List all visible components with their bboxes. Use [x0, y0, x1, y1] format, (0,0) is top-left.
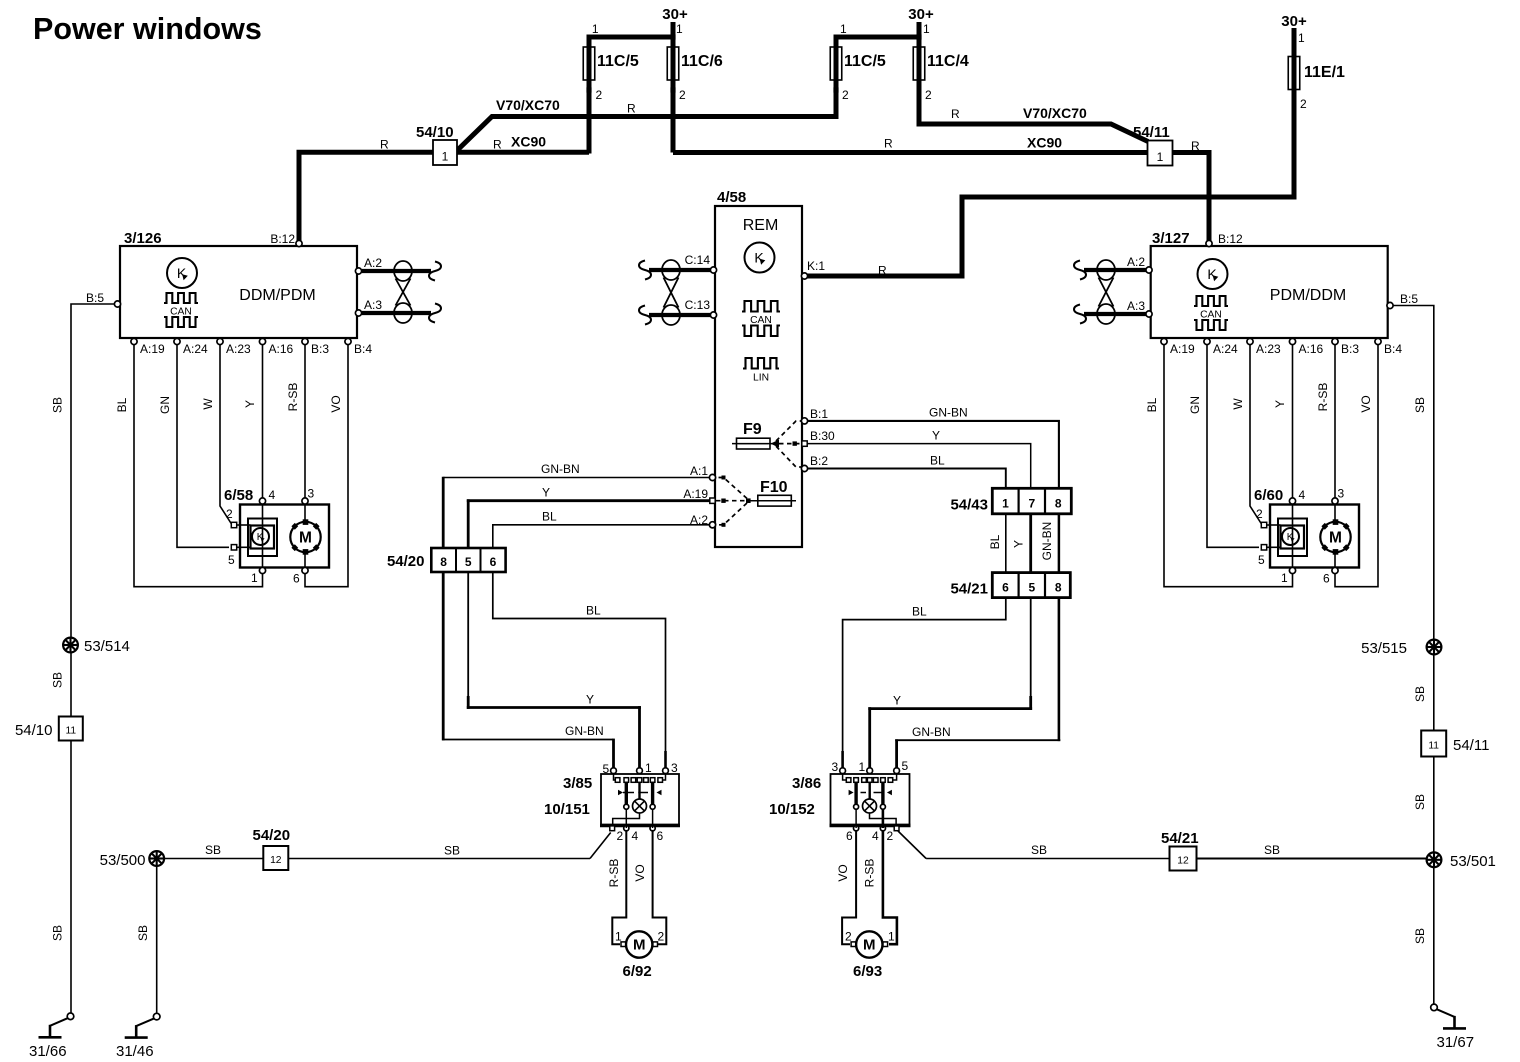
svg-text:R: R	[951, 107, 960, 121]
svg-text:Y: Y	[932, 429, 940, 443]
svg-text:54/10: 54/10	[416, 124, 454, 141]
svg-text:31/66: 31/66	[29, 1043, 67, 1060]
K symbol 6/58	[252, 528, 269, 545]
svg-text:4: 4	[1299, 488, 1306, 502]
lamp 3/85	[633, 799, 647, 813]
svg-text:GN-BN: GN-BN	[1040, 522, 1054, 561]
svg-text:54/11: 54/11	[1133, 124, 1170, 141]
svg-text:53/501: 53/501	[1450, 853, 1496, 870]
svg-text:3: 3	[1338, 487, 1345, 501]
svg-text:31/46: 31/46	[116, 1043, 154, 1060]
pin B:4 3/126	[345, 338, 351, 344]
svg-text:B:5: B:5	[86, 291, 104, 305]
ground 31/46	[153, 1013, 160, 1020]
fuse 11C/6	[667, 47, 679, 80]
svg-text:REM: REM	[743, 217, 779, 234]
svg-text:2: 2	[845, 930, 852, 944]
wire SB 54/11 to 53/501	[1433, 757, 1435, 853]
junction at 30+ middle stub	[916, 34, 921, 39]
svg-text:6: 6	[1002, 581, 1009, 595]
wire pin3 to motor 6/60	[1334, 504, 1336, 522]
svg-text:30+: 30+	[908, 6, 934, 23]
pin 5 3/86	[894, 768, 900, 774]
svg-text:8: 8	[1055, 497, 1062, 511]
wire motor to pin6 6/60	[1334, 552, 1336, 567]
svg-text:6: 6	[293, 572, 300, 586]
svg-text:Y: Y	[1012, 540, 1026, 548]
svg-text:BL: BL	[1145, 397, 1159, 412]
svg-text:BL: BL	[930, 454, 945, 468]
svg-text:3: 3	[308, 487, 315, 501]
K symbol 4/58	[745, 243, 775, 273]
internal left contact bar 3/85	[625, 783, 628, 805]
svg-text:4: 4	[269, 488, 276, 502]
wire break C:14	[639, 261, 651, 280]
dashed wire F9 to B:30	[779, 443, 803, 445]
svg-text:6/58: 6/58	[224, 487, 253, 504]
svg-text:R-SB: R-SB	[607, 859, 621, 888]
svg-text:10/152: 10/152	[769, 801, 815, 818]
svg-text:A:24: A:24	[183, 342, 208, 356]
wire W A:23 3/127 to 6/60 pin 2	[1250, 345, 1262, 524]
svg-text:1: 1	[645, 761, 652, 775]
svg-text:B:4: B:4	[1384, 342, 1402, 356]
wire BL 54/21 to 3/86 pin 3	[843, 598, 1006, 751]
svg-text:C:14: C:14	[685, 253, 711, 267]
svg-text:3/85: 3/85	[563, 775, 592, 792]
relay box 6/58	[248, 519, 277, 557]
pin A:23 3/127	[1247, 338, 1253, 344]
svg-text:B:2: B:2	[810, 454, 828, 468]
svg-text:BL: BL	[912, 605, 927, 619]
pin 1 6/58	[259, 567, 265, 573]
svg-text:Y: Y	[586, 693, 594, 707]
svg-text:2: 2	[658, 930, 665, 944]
svg-text:4: 4	[632, 829, 639, 843]
svg-text:B:12: B:12	[270, 232, 295, 246]
svg-text:2: 2	[887, 829, 894, 843]
svg-text:Y: Y	[542, 486, 550, 500]
motor 6/92	[626, 931, 652, 957]
wire SB 54/21 to 53/501	[1197, 858, 1427, 860]
wire V70/XC70 feed 11C/5 right to 54/10	[456, 117, 836, 152]
svg-text:1: 1	[442, 150, 449, 164]
wire Y A:16 3/126 to 6/58 pin 4	[262, 345, 264, 498]
pin 2 3/85	[610, 826, 615, 831]
fuse 11C/5 right	[830, 47, 842, 80]
wire GN-BN 54/20 to 3/85 pin 5	[442, 572, 445, 740]
svg-text:2: 2	[925, 88, 932, 102]
svg-text:54/21: 54/21	[1161, 830, 1199, 847]
svg-text:M: M	[633, 937, 646, 954]
pin 1 3/85	[637, 768, 643, 774]
svg-text:3/127: 3/127	[1152, 230, 1190, 247]
svg-text:VO: VO	[633, 864, 647, 881]
wire pin4 to pin1 through 6/60	[1292, 504, 1294, 567]
svg-text:53/515: 53/515	[1361, 640, 1407, 657]
wire R from 11E/1 to REM K:1	[806, 95, 1294, 276]
svg-text:BL: BL	[988, 534, 1002, 549]
svg-text:SB: SB	[1413, 686, 1427, 702]
pin B:4 3/127	[1375, 338, 1381, 344]
wire XC90 feed 11C/5 left to 54/10	[457, 150, 589, 155]
svg-text:F9: F9	[743, 421, 762, 438]
wire pin1 to lamp 3/86	[869, 783, 871, 800]
svg-text:11C/4: 11C/4	[927, 53, 969, 70]
svg-text:DDM/PDM: DDM/PDM	[239, 287, 315, 304]
wire BL REM B:2 to 54/43	[808, 469, 1006, 490]
wire stub 30+ to fuse 11C/5 top	[589, 37, 673, 48]
wire SB from B:5 3/127	[1393, 306, 1434, 641]
svg-text:BL: BL	[115, 397, 129, 412]
svg-text:SB: SB	[444, 844, 460, 858]
pin A:16 3/126	[259, 338, 265, 344]
svg-text:4: 4	[872, 829, 879, 843]
wire SB 54/20 to 3/85 pin 2	[288, 858, 590, 860]
K symbol 3/126	[167, 258, 197, 288]
svg-text:3/86: 3/86	[792, 775, 821, 792]
splice 53/501	[1427, 852, 1442, 867]
K symbol 6/60	[1282, 528, 1299, 545]
svg-text:31/67: 31/67	[1437, 1034, 1475, 1051]
wire break A:2 3/127	[1074, 261, 1086, 280]
pin 6 6/58	[302, 567, 308, 573]
pin 4 6/58	[259, 498, 265, 504]
wire XC90 feed 11C/6 to 54/11	[673, 150, 1148, 155]
svg-text:3: 3	[671, 761, 678, 775]
wire pin1 to lamp 3/85	[638, 783, 640, 800]
wire break A:3 3/127	[1074, 305, 1086, 324]
svg-text:6: 6	[490, 555, 497, 569]
svg-text:11C/6: 11C/6	[681, 53, 723, 70]
svg-text:VO: VO	[329, 395, 343, 412]
pin A:19 3/127	[1161, 338, 1167, 344]
wire R from B:12 DDM to 54/10	[299, 152, 433, 242]
wire 30+ middle vertical to fuse 11C/4	[917, 22, 922, 48]
pin 2 dot fuse 11C/6	[670, 87, 675, 92]
wire GN A:24 3/127 to 6/60 pin 5	[1207, 345, 1259, 547]
svg-text:5: 5	[603, 762, 610, 776]
svg-text:A:19: A:19	[683, 487, 708, 501]
splice 53/514	[70, 638, 72, 717]
dashed wire F10 to A:19	[716, 500, 746, 502]
wire lamp to pin 2 3/85	[613, 813, 640, 826]
wire Y REM A:19 to 54/20	[467, 499, 710, 502]
wire W A:23 3/126 to 6/58 pin 2	[220, 345, 232, 524]
svg-text:2: 2	[1300, 97, 1307, 111]
svg-text:R-SB: R-SB	[286, 383, 300, 412]
wire pin4 to pin1 through 6/58	[262, 504, 264, 567]
wire lamp to pin 2 3/86	[870, 813, 897, 826]
wire CAN C:14 4/58	[649, 268, 711, 272]
junction at 30+ left stub	[670, 34, 675, 39]
wire Y 54/21 to 3/86 pin 1	[1030, 598, 1032, 696]
wire 30+ left vertical to fuse 11C/6	[671, 22, 676, 48]
svg-text:F10: F10	[760, 479, 788, 496]
pin B:3 3/126	[302, 338, 308, 344]
internal right contact bar 3/86	[881, 783, 884, 805]
motor 6/93	[856, 931, 882, 957]
svg-text:B:1: B:1	[810, 407, 828, 421]
svg-text:R-SB: R-SB	[1316, 383, 1330, 412]
svg-text:R: R	[884, 137, 893, 151]
wire CAN A:2 3/127	[1084, 268, 1146, 272]
svg-text:CAN: CAN	[170, 307, 192, 318]
svg-text:B:3: B:3	[1341, 342, 1359, 356]
pin 2 motor 6/92	[653, 942, 658, 947]
splice 53/500	[149, 851, 164, 866]
svg-text:1: 1	[615, 930, 622, 944]
wire motor to pin6 6/58	[304, 552, 306, 567]
svg-text:5: 5	[228, 553, 235, 567]
svg-text:B:4: B:4	[354, 342, 372, 356]
svg-text:SB: SB	[1413, 928, 1427, 944]
svg-text:VO: VO	[1359, 395, 1373, 412]
svg-text:1: 1	[1281, 571, 1288, 585]
pin 6 3/85	[650, 826, 655, 831]
svg-text:5: 5	[465, 555, 472, 569]
svg-text:1: 1	[676, 22, 683, 36]
internal right contact bar 3/85	[651, 783, 654, 805]
wire stub 30+ to fuse 11C/5 right top	[836, 37, 919, 48]
pin 1 motor 6/93	[883, 942, 888, 947]
dashed wire F10 to A:2	[716, 503, 747, 525]
wire R-SB 3/86 to motor 6/93	[882, 809, 885, 828]
svg-text:11: 11	[65, 726, 76, 737]
svg-text:SB: SB	[136, 925, 150, 941]
twisted pair symbol 3/127	[1097, 260, 1115, 280]
connector 54/11 pin 11	[1421, 731, 1446, 757]
svg-text:R: R	[493, 138, 502, 152]
wire SB 3/86 to 54/21	[898, 831, 926, 859]
wire pin3 to motor 6/58	[304, 504, 306, 522]
wire Y 54/20 to 3/85 pin 1	[467, 572, 469, 696]
pin 2 motor 6/93	[851, 942, 856, 947]
pin 3 6/58	[302, 498, 308, 504]
fuse 11C/4	[913, 47, 925, 80]
fuse 11E/1	[1288, 57, 1300, 90]
wire Y A:16 3/127 to 6/60 pin 4	[1292, 345, 1294, 498]
svg-text:B:12: B:12	[1218, 232, 1243, 246]
wire CAN C:13 4/58	[649, 313, 711, 317]
svg-text:2: 2	[226, 507, 233, 521]
svg-text:R: R	[1191, 139, 1200, 153]
svg-text:GN: GN	[158, 396, 172, 414]
svg-text:A:3: A:3	[1127, 299, 1145, 313]
twisted pair symbol 4/58	[662, 260, 680, 280]
wire SB 53/501 to ground 31/67	[1433, 867, 1435, 1005]
svg-text:A:23: A:23	[226, 342, 251, 356]
wire V70/XC70 feed 11C/4 to 54/11	[919, 124, 1148, 142]
svg-text:54/21: 54/21	[950, 581, 988, 598]
svg-text:GN-BN: GN-BN	[565, 724, 604, 738]
svg-text:XC90: XC90	[511, 134, 546, 150]
pin A:23 3/126	[217, 338, 223, 344]
svg-text:5: 5	[1028, 581, 1035, 595]
svg-text:W: W	[1231, 398, 1245, 410]
dashed wire F9 to B:1	[776, 421, 803, 441]
pin 1 motor 6/92	[621, 942, 626, 947]
pin 5 3/85	[611, 768, 617, 774]
internal actuator arms 3/86	[849, 790, 854, 795]
svg-text:GN-BN: GN-BN	[541, 462, 580, 476]
pin 1 3/86	[867, 768, 873, 774]
svg-text:12: 12	[270, 855, 282, 866]
svg-text:A:3: A:3	[364, 298, 382, 312]
svg-text:GN-BN: GN-BN	[929, 406, 968, 420]
svg-text:3: 3	[832, 760, 839, 774]
wire GN-BN REM A:1 to 54/20	[443, 477, 709, 479]
wire R-SB 3/85 to motor 6/92	[625, 809, 627, 828]
svg-text:Y: Y	[243, 400, 257, 408]
ground 31/67	[1431, 1004, 1438, 1011]
wire BL REM A:2 to 54/20	[493, 525, 710, 549]
svg-text:30+: 30+	[1281, 13, 1307, 30]
arrow F9 output	[771, 440, 780, 448]
svg-text:R: R	[380, 138, 389, 152]
CAN symbol 4/58	[742, 301, 780, 312]
internal actuator arms 3/85	[618, 790, 623, 795]
wire SB from B:5 3/126	[71, 304, 115, 638]
svg-text:8: 8	[440, 555, 447, 569]
svg-text:SB: SB	[1264, 843, 1280, 857]
twisted pair symbol 3/126	[394, 261, 412, 281]
svg-text:6/93: 6/93	[853, 963, 882, 980]
svg-text:1: 1	[859, 760, 866, 774]
dashed wire F10 to A:1	[716, 478, 747, 499]
svg-text:B:5: B:5	[1400, 292, 1418, 306]
svg-text:11: 11	[1428, 741, 1439, 752]
wire CAN A:2 3/126	[362, 269, 431, 273]
wire SB 53/500 to ground 31/46	[156, 866, 158, 1013]
svg-text:SB: SB	[1413, 794, 1427, 810]
svg-text:XC90: XC90	[1027, 135, 1062, 151]
svg-text:M: M	[299, 530, 312, 547]
svg-text:VO: VO	[836, 864, 850, 881]
wire VO B:4 3/127 to 6/60 pin 6	[1335, 345, 1378, 587]
pin 3 3/86	[840, 768, 846, 774]
wire R-SB B:3 3/126 to 6/58 pin 3	[304, 345, 306, 498]
svg-text:M: M	[863, 937, 876, 954]
lamp 3/86	[863, 799, 877, 813]
svg-text:A:24: A:24	[1213, 342, 1238, 356]
wire CAN A:3 3/127	[1084, 312, 1146, 316]
svg-text:1: 1	[592, 22, 599, 36]
wire break A:3 3/126	[429, 304, 441, 323]
svg-text:54/20: 54/20	[253, 827, 291, 844]
svg-text:SB: SB	[51, 925, 65, 941]
pin 4 3/85	[624, 826, 629, 831]
pin A:24 3/126	[174, 338, 180, 344]
wire GN-BN 54/21 to 3/86 pin 5	[1058, 598, 1061, 742]
svg-text:BL: BL	[586, 604, 601, 618]
svg-text:BL: BL	[542, 510, 557, 524]
pin 3 6/60	[1332, 498, 1338, 504]
wire break A:2 3/126	[429, 262, 441, 281]
svg-text:A:1: A:1	[690, 464, 708, 478]
svg-text:SB: SB	[51, 397, 65, 413]
svg-text:LIN: LIN	[753, 373, 769, 384]
wire CAN A:3 3/126	[362, 311, 431, 315]
svg-text:V70/XC70: V70/XC70	[496, 97, 560, 113]
splice 53/515	[1433, 640, 1435, 731]
svg-text:A:19: A:19	[140, 342, 165, 356]
wire VO 3/86 to motor 6/93	[855, 809, 857, 828]
pin 2 3/86	[894, 826, 899, 831]
pin 4 6/60	[1289, 498, 1295, 504]
wire VO 3/85 to motor 6/92	[652, 809, 654, 828]
svg-text:4/58: 4/58	[717, 189, 746, 206]
svg-text:6: 6	[846, 829, 853, 843]
svg-text:Y: Y	[893, 694, 901, 708]
svg-text:A:16: A:16	[269, 342, 294, 356]
svg-text:SB: SB	[51, 672, 65, 688]
K symbol 3/127	[1198, 259, 1228, 289]
svg-text:M: M	[1329, 530, 1342, 547]
svg-text:1: 1	[1157, 150, 1164, 164]
pin 2 dot fuse 11C/5 left	[586, 87, 591, 92]
wire 30+ right vertical	[1292, 28, 1297, 197]
svg-text:2: 2	[679, 88, 686, 102]
svg-text:11E/1: 11E/1	[1304, 64, 1345, 81]
wire BL 54/20 to 3/85 pin 3	[493, 572, 666, 751]
wire R from 54/11 to B:12 PDM	[1173, 153, 1210, 243]
svg-text:B:3: B:3	[311, 342, 329, 356]
svg-text:6: 6	[657, 829, 664, 843]
svg-text:5: 5	[902, 759, 909, 773]
svg-text:2: 2	[842, 88, 849, 102]
svg-text:30+: 30+	[662, 6, 688, 23]
svg-text:PDM/DDM: PDM/DDM	[1270, 287, 1346, 304]
pin 4 3/86	[880, 826, 885, 831]
svg-text:2: 2	[617, 829, 624, 843]
pin A:16 3/127	[1289, 338, 1295, 344]
CAN symbol 3/127	[1194, 296, 1228, 306]
pin 1 6/60	[1289, 567, 1295, 573]
svg-text:6/60: 6/60	[1254, 487, 1283, 504]
pin 6 6/60	[1332, 567, 1338, 573]
wire GN A:24 3/126 to 6/58 pin 5	[177, 345, 229, 547]
internal contact strip 3/86	[843, 774, 846, 781]
dashed wire F9 to B:2	[776, 446, 803, 467]
pin A:19 3/126	[131, 338, 137, 344]
svg-text:1: 1	[1298, 31, 1305, 45]
svg-text:1: 1	[1002, 497, 1009, 511]
fuse 11C/5 left	[583, 47, 595, 80]
svg-text:2: 2	[596, 88, 603, 102]
svg-text:12: 12	[1177, 856, 1189, 867]
svg-text:GN-BN: GN-BN	[912, 725, 951, 739]
svg-text:53/514: 53/514	[84, 638, 130, 655]
pin 2 dot fuse 11C/5 right	[833, 87, 838, 92]
pin A:24 3/127	[1204, 338, 1210, 344]
svg-text:53/500: 53/500	[100, 852, 146, 869]
svg-text:1: 1	[840, 22, 847, 36]
wire SB 54/10 to ground 31/66	[70, 741, 72, 1014]
svg-text:5: 5	[1258, 553, 1265, 567]
svg-text:10/151: 10/151	[544, 801, 590, 818]
svg-text:A:2: A:2	[1127, 255, 1145, 269]
svg-text:1: 1	[888, 930, 895, 944]
svg-text:Power windows: Power windows	[33, 12, 262, 46]
svg-text:1: 1	[923, 22, 930, 36]
svg-text:6/92: 6/92	[623, 963, 652, 980]
svg-text:CAN: CAN	[750, 315, 772, 326]
svg-text:R: R	[627, 102, 636, 116]
svg-text:54/10: 54/10	[15, 722, 53, 739]
internal left contact bar 3/86	[854, 783, 857, 805]
ground 31/66	[67, 1013, 74, 1020]
